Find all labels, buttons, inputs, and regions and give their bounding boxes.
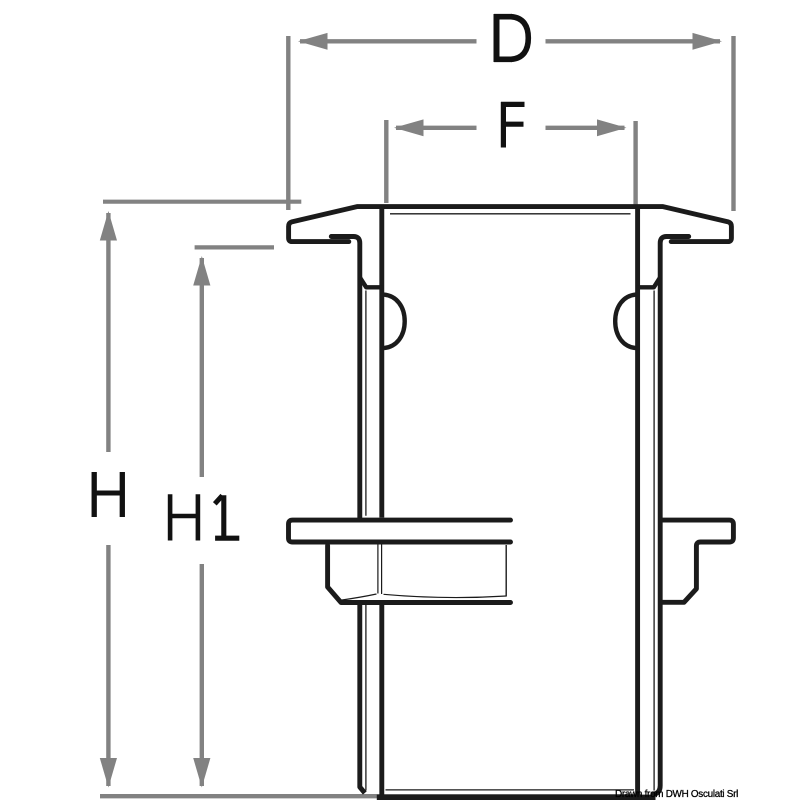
svg-text:Drawn from DWH Osculati Srl: Drawn from DWH Osculati Srl [615, 789, 738, 800]
